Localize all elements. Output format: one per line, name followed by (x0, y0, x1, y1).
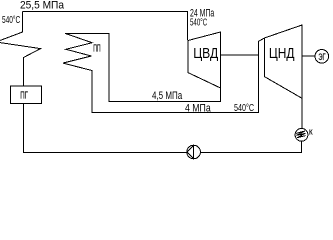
svg-text:ЦВД: ЦВД (193, 45, 218, 62)
svg-text:ПГ: ПГ (20, 89, 28, 101)
svg-text:540°С: 540°С (2, 14, 21, 26)
pump (condensate) circle (187, 145, 201, 159)
svg-text:К: К (309, 130, 313, 137)
svg-text:ПП: ПП (93, 43, 100, 55)
wire feedwater down from ПГ (24, 104, 187, 153)
svg-text:540°С: 540°С (190, 17, 207, 29)
wire condensate line pump to condenser (200, 141, 301, 152)
wire cold reheat ЦВД to ПП (65, 33, 221, 101)
svg-text:540°С: 540°С (234, 102, 254, 114)
svg-text:4,5 МПа: 4,5 МПа (152, 90, 183, 102)
svg-text:ЦНД: ЦНД (269, 45, 295, 62)
turbine ЦНД trapezoid (264, 25, 302, 98)
wire main steam line ПГ to ЦВД (23, 12, 188, 41)
wire shaft ЦВД-ЦНД (221, 54, 259, 56)
reheater ПП zigzag and hot reheat wire to ЦНД (63, 33, 265, 112)
svg-text:ЭГ: ЭГ (318, 52, 325, 63)
svg-text:4 МПа: 4 МПа (185, 102, 211, 114)
svg-text:25,5 МПа: 25,5 МПа (20, 0, 65, 12)
turbine ЦВД trapezoid (188, 32, 221, 88)
wire ЦНД exhaust to condenser (301, 98, 303, 128)
pump triangle (187, 145, 194, 159)
condenser К circle (295, 128, 308, 141)
condenser cooling-water zigzag (296, 131, 306, 138)
generator ЭГ circle (315, 50, 329, 64)
boiler superheater zigzag (0, 12, 41, 87)
wire shaft ЦНД to ЭГ (302, 55, 315, 57)
steam generator ПГ box (11, 86, 42, 104)
